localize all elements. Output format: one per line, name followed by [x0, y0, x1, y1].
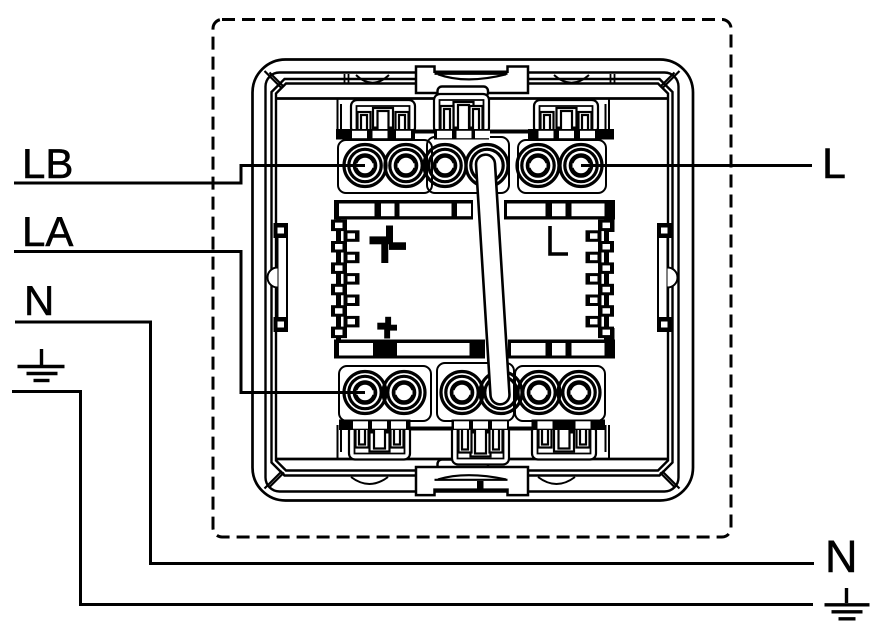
bottom clamp housing middle group [452, 425, 509, 465]
bottom mounting tab [416, 460, 528, 496]
bottom terminal row housing middle [437, 363, 514, 421]
frame tick pair top-right [611, 74, 615, 84]
svg-text:N: N [24, 277, 54, 324]
module bottom shelf line [277, 458, 667, 461]
dashed installation-box outline [213, 20, 731, 538]
mid divider bar right-top [504, 200, 615, 220]
wire L right [581, 164, 812, 167]
bottom terminal 5 [518, 372, 560, 414]
top terminal 2 [385, 145, 427, 187]
bottom terminal 4 (strap) [480, 372, 522, 414]
svg-text:LA: LA [22, 208, 73, 255]
switch second frame [266, 73, 679, 492]
top terminal row housing left [338, 140, 432, 193]
top clamp housing right group [534, 100, 598, 134]
module top-right edge [606, 99, 610, 134]
L terminal marking [550, 226, 568, 254]
clamp feet row bottom [339, 420, 605, 431]
bottom clamp housing left group [349, 425, 410, 460]
frame corner mitre bottom-left [265, 471, 285, 489]
bottom terminal row housing right [515, 366, 605, 421]
top mounting tab [416, 67, 528, 98]
top clamp housing middle group [434, 94, 489, 134]
pinwheel symbol small [377, 317, 397, 339]
svg-text:N: N [825, 531, 858, 582]
frame corner mitre top-right [660, 71, 680, 89]
top clamp housing left group [351, 100, 415, 134]
clamp feet row top [336, 129, 614, 140]
pinwheel symbol large [370, 226, 407, 264]
bottom terminal row housing left [339, 366, 431, 421]
bottom terminal 6 [558, 372, 600, 414]
svg-text:L: L [822, 140, 846, 188]
bottom clamp housing right group [532, 425, 596, 460]
bottom terminal 1 [344, 372, 386, 414]
module top-left edge [338, 99, 342, 134]
mid divider bar left-top [334, 200, 473, 220]
top terminal 6 [560, 145, 602, 187]
switch outer frame [253, 60, 694, 501]
left side mounting clip [268, 224, 288, 331]
ground symbol right [825, 588, 870, 619]
switch inner frame inner line [276, 84, 668, 471]
top terminal 3 [424, 145, 466, 187]
module bottom-left edge [338, 425, 342, 459]
top terminal 4 (strap) [466, 145, 508, 187]
frame moon cutout top-right [554, 75, 589, 83]
left teeth column [331, 220, 360, 340]
wire LB [14, 166, 365, 184]
mid divider bar right-bottom [508, 340, 615, 359]
switch inner frame outer line [272, 79, 673, 476]
wire LA [14, 252, 365, 393]
frame corner mitre bottom-right [660, 471, 680, 489]
top terminal 5 [517, 145, 559, 187]
shorting strap between terminal rows [476, 155, 509, 405]
frame moon cutout top-left [356, 75, 389, 83]
module bottom-right edge [606, 425, 610, 459]
bottom terminal 2 [383, 372, 425, 414]
frame tick pair top-left [345, 74, 349, 84]
top terminal 1 [344, 145, 386, 187]
right side mounting clip [658, 224, 678, 331]
svg-text:LB: LB [22, 140, 73, 187]
frame moon cutout bottom-left [351, 477, 388, 484]
frame moon cutout bottom-right [538, 477, 575, 484]
wire N left [15, 322, 814, 564]
top terminal row housing right [518, 140, 606, 193]
bottom terminal 3 [441, 372, 483, 414]
mid divider bar left-bottom [334, 340, 485, 359]
frame corner mitre top-left [265, 71, 285, 89]
wire earth left [12, 392, 813, 605]
right teeth column [586, 202, 615, 358]
top terminal row housing middle [427, 137, 509, 193]
ground symbol left [18, 349, 65, 381]
module top shelf line [277, 97, 667, 100]
